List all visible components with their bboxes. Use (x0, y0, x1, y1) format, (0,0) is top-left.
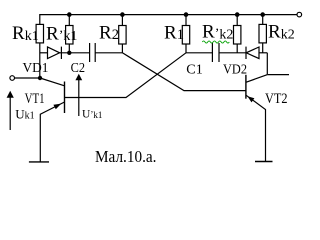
wire VD2 to collector node of VT2 (259, 52, 267, 54)
svg-text:C2: C2 (71, 61, 85, 76)
svg-text:U’k1: U’k1 (82, 108, 102, 120)
svg-text:VD1: VD1 (23, 61, 49, 76)
node junction R'k2 top on rail (235, 12, 240, 17)
arrow Uk1 (9, 95, 11, 130)
resistor R'k2 (236, 15, 238, 26)
node junction R'k1 top on rail (67, 12, 72, 17)
node junction VT1 collector (38, 76, 42, 80)
node junction R1 top on rail (184, 12, 189, 17)
wire top rail (40, 15, 297, 25)
diode VD1 (48, 47, 60, 59)
diode VD2 (245, 47, 247, 59)
wire output stub right (267, 74, 289, 76)
node junction VD1 cathode / R'k1 / C2 (67, 51, 71, 55)
resistor Rk1 (36, 24, 43, 43)
resistor R'k1 (68, 15, 70, 26)
ground left (29, 161, 49, 163)
wire terminal to collector node (15, 77, 41, 79)
svg-text:C1: C1 (186, 62, 203, 77)
resistor R1 (185, 15, 187, 26)
capacitor C2 (89, 43, 91, 62)
wire VT2 collector node vertical (266, 53, 268, 75)
wire cross coupling to VT1 base (65, 53, 187, 98)
node input terminal left (10, 76, 15, 81)
wire cross coupling to VT2 base (122, 53, 245, 91)
wire R1 to C1 (186, 52, 212, 54)
transistor VT2 (245, 75, 247, 99)
wire VD1 to C2 (60, 52, 90, 54)
arrowhead Uk1 (7, 91, 14, 98)
ground right (255, 161, 273, 163)
capacitor C1 (211, 43, 213, 62)
svg-text:VT1: VT1 (25, 91, 45, 107)
wire C2 to R2 node (95, 52, 122, 54)
transistor VT1 (64, 82, 66, 114)
svg-text:VD2: VD2 (223, 62, 247, 77)
node junction R2 top on rail (120, 12, 125, 17)
arrowhead VT1 emitter (53, 104, 61, 110)
wire Rk1 bottom lead down to collector node (39, 43, 41, 78)
wire C1 to R'k2 node (219, 52, 246, 54)
arrow U'k1 (78, 78, 80, 116)
svg-text:VT2: VT2 (265, 91, 288, 107)
node junction Rk2 top on rail (260, 12, 265, 17)
node right supply terminal (297, 12, 302, 17)
resistor R2 (121, 15, 123, 26)
arrowhead VT2 emitter (247, 96, 254, 102)
svg-text:Мал.10.а.: Мал.10.а. (95, 147, 157, 166)
resistor Rk2 (262, 15, 264, 25)
wire chain left (40, 52, 48, 54)
squiggle spellcheck under R'k2 (202, 41, 229, 43)
arrowhead U'k1 (75, 74, 82, 81)
